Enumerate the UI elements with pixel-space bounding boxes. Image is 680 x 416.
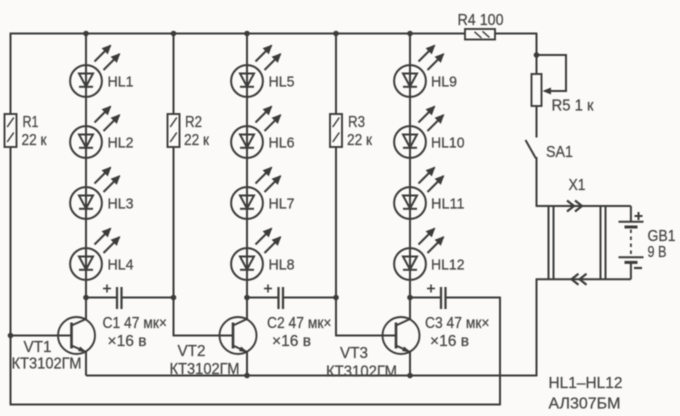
node top rail / column 2 [244, 31, 250, 37]
wire X1 top conductor [536, 205, 631, 207]
node top rail / R3 [333, 31, 339, 37]
R5 wiper arrow [543, 88, 552, 95]
LED HL2 [70, 126, 102, 158]
svg-text:С1 47 мк×: С1 47 мк× [103, 315, 168, 332]
wire R2 to VT2 base vertical [173, 298, 175, 336]
svg-text:22 к: 22 к [347, 132, 372, 149]
wire VT1 base lead [11, 335, 73, 337]
svg-text:VT1: VT1 [24, 339, 52, 356]
LED HL9 [394, 65, 426, 97]
connector X1 right pair [600, 206, 602, 279]
capacitor C2 [277, 287, 279, 309]
wire LED column 2 [246, 34, 248, 298]
wire R3 to VT3 base vertical [335, 298, 337, 336]
svg-text:HL4: HL4 [108, 257, 134, 274]
wire R5 wiper loop [537, 55, 567, 91]
svg-text:HL12: HL12 [431, 257, 465, 274]
wire right branch down to R5 [536, 33, 538, 75]
transistor VT3 [383, 317, 420, 354]
resistor R1 [5, 114, 17, 147]
svg-text:R1: R1 [23, 114, 39, 131]
wire C1 right segment [123, 297, 174, 299]
wire X1 bottom conductor [536, 278, 631, 280]
svg-text:22 к: 22 к [184, 132, 209, 149]
svg-text:VT3: VT3 [340, 345, 368, 362]
node VT1 collector / C1 [83, 295, 89, 301]
svg-text:КТ3102ГМ: КТ3102ГМ [326, 364, 397, 381]
wire C3 left segment [410, 297, 440, 299]
wire bottom feedback rail [10, 404, 500, 406]
wire VT3 emitter stub [409, 352, 411, 376]
svg-text:С2 47 мк×: С2 47 мк× [267, 315, 332, 332]
svg-text:X1: X1 [569, 177, 586, 194]
wire LED column 1 [85, 34, 87, 298]
wire C3 right segment [447, 297, 501, 299]
svg-text:HL11: HL11 [431, 196, 465, 213]
wire VT3 collector stub [409, 298, 411, 320]
wire battery negative lead [630, 262, 632, 279]
svg-text:×16 в: ×16 в [108, 333, 147, 350]
wire SA1 lower lead [536, 157, 538, 206]
wire C2 left segment [247, 297, 278, 299]
wire VT1 emitter stub [85, 352, 87, 376]
svg-text:×16 в: ×16 в [272, 333, 311, 350]
svg-text:С3 47 мк×: С3 47 мк× [425, 315, 490, 332]
wire C3 to bottom rail drop [499, 298, 501, 406]
wire LED column 3 [409, 34, 411, 298]
LED HL12 [394, 248, 426, 280]
wire R2 column [173, 34, 175, 298]
wire battery positive lead [630, 206, 632, 222]
svg-text:КТ3102ГМ: КТ3102ГМ [170, 361, 240, 378]
svg-text:22 к: 22 к [22, 132, 47, 149]
svg-text:SA1: SA1 [546, 144, 573, 161]
wire C1 left segment [86, 297, 116, 299]
node top rail / R2 [171, 31, 177, 37]
wire VT3 base lead [335, 335, 396, 337]
battery GB1 [619, 221, 644, 223]
svg-text:HL7: HL7 [269, 196, 295, 213]
svg-text:R4 100: R4 100 [458, 12, 504, 29]
wire R3 column [335, 34, 337, 298]
node R5 wiper tap [534, 52, 540, 58]
node top rail / column 1 [83, 31, 89, 37]
wire VT1 collector stub [85, 298, 87, 320]
svg-text:×16 в: ×16 в [430, 333, 469, 350]
capacitor C3 [440, 287, 442, 309]
wire C2 right segment [284, 297, 336, 299]
node VT3 collector / C3 [407, 295, 413, 301]
LED HL5 [231, 65, 263, 97]
LED HL7 [231, 187, 263, 219]
node C1 / R2 [171, 295, 177, 301]
node C2 / R3 [333, 295, 339, 301]
connector X1 left pair [548, 206, 550, 279]
svg-text:HL9: HL9 [431, 74, 457, 91]
svg-text:HL6: HL6 [269, 135, 295, 152]
wire top rail right of R4 [495, 33, 537, 35]
svg-text:HL8: HL8 [269, 257, 295, 274]
svg-text:R3: R3 [348, 114, 365, 131]
resistor R2 [168, 114, 180, 147]
transistor VT2 [220, 317, 257, 354]
connector X1 top contacts » [567, 201, 574, 212]
svg-text:VT2: VT2 [178, 343, 206, 360]
node VT1 base / feedback [8, 333, 14, 339]
wire left rail (R1 branch) [10, 34, 12, 405]
svg-text:АЛ307БМ: АЛ307БМ [549, 396, 621, 413]
capacitor C1 [116, 287, 118, 309]
wire VT2 base lead [173, 335, 233, 337]
svg-text:R2: R2 [185, 114, 202, 131]
node VT2 collector / C2 [244, 295, 250, 301]
svg-text:HL1–HL12: HL1–HL12 [549, 375, 623, 392]
switch SA1 blade [526, 140, 536, 158]
svg-text:R5 1 к: R5 1 к [552, 98, 594, 115]
LED HL8 [231, 248, 263, 280]
node VT2 emitter / rail [244, 373, 250, 379]
svg-text:HL2: HL2 [108, 135, 134, 152]
LED HL1 [70, 65, 102, 97]
svg-text:КТ3102ГМ: КТ3102ГМ [12, 356, 82, 373]
wire R5 to SA1 [536, 106, 538, 138]
wire VT2 emitter stub [246, 352, 248, 376]
svg-text:9 В: 9 В [648, 244, 667, 261]
svg-text:HL3: HL3 [108, 196, 134, 213]
resistor R4 [465, 29, 495, 40]
connector X1 bottom contacts « [572, 274, 579, 285]
transistor VT1 [58, 317, 95, 354]
wire battery branch down [536, 279, 538, 376]
LED HL3 [70, 187, 102, 219]
potentiometer R5 [532, 74, 542, 106]
svg-text:HL10: HL10 [431, 135, 465, 152]
LED HL11 [394, 187, 426, 219]
wire emitter ground rail [86, 375, 537, 377]
node VT3 emitter / rail [407, 373, 413, 379]
wire VT2 collector stub [246, 298, 248, 320]
LED HL6 [231, 126, 263, 158]
wire top supply rail [10, 33, 465, 35]
LED HL10 [394, 126, 426, 158]
svg-text:HL1: HL1 [108, 74, 134, 91]
node top rail / column 3 [407, 31, 413, 37]
LED HL4 [70, 248, 102, 280]
svg-text:GB1: GB1 [648, 228, 676, 245]
battery + mark [635, 215, 643, 217]
resistor R3 [330, 114, 342, 147]
svg-text:HL5: HL5 [269, 74, 295, 91]
battery − mark [634, 267, 642, 269]
